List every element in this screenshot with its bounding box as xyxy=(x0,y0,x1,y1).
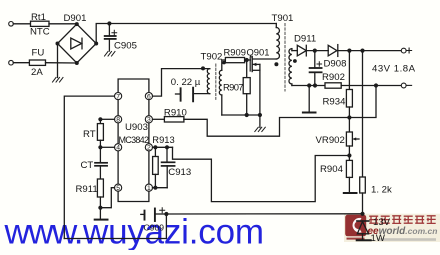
pin 3 xyxy=(145,116,152,124)
wire xyxy=(49,23,77,25)
node zener top xyxy=(360,212,364,216)
resistor R909 xyxy=(224,47,251,63)
pin 5 xyxy=(115,184,122,192)
wire pin 4 xyxy=(100,146,114,148)
wire left feedback column xyxy=(64,96,114,238)
terminal + output xyxy=(401,48,406,53)
svg-text:C913: C913 xyxy=(168,167,191,178)
node R913 top xyxy=(153,145,157,149)
node 1.2k branch xyxy=(360,49,364,53)
svg-text:R907: R907 xyxy=(223,82,244,93)
wire xyxy=(13,23,30,25)
node VR902/R904 junction xyxy=(347,153,351,157)
resistor R913 xyxy=(152,134,174,188)
svg-text:13V: 13V xyxy=(373,217,391,228)
svg-text:MC3842: MC3842 xyxy=(119,135,150,145)
wire pins 5-1 lower U xyxy=(118,191,149,201)
wire xyxy=(341,85,401,87)
terminal - output xyxy=(401,83,406,88)
svg-text:0. 22 µ: 0. 22 µ xyxy=(171,77,201,88)
node R934 bottom junction xyxy=(347,115,351,119)
svg-text:R934: R934 xyxy=(323,97,347,108)
wire bridge plus riser xyxy=(96,24,276,44)
pin 1 xyxy=(145,184,152,192)
svg-text:D908: D908 xyxy=(324,59,347,70)
node C909 plus junction xyxy=(164,212,168,216)
ground (bar style) R904 xyxy=(344,192,357,194)
resistor Rt1 xyxy=(31,21,50,26)
wire bridge minus to ground xyxy=(57,44,59,78)
svg-text:Rt1: Rt1 xyxy=(31,12,46,23)
node T902 winding2 phase dot xyxy=(222,61,226,65)
capacitor C905 xyxy=(105,24,137,52)
node R934 branch xyxy=(347,49,351,53)
node DC bus / C905 junction xyxy=(107,21,111,25)
wire pin 5 to ground junction xyxy=(100,188,114,208)
node rectifier output junction xyxy=(313,49,317,53)
terminal AC input 2 xyxy=(9,60,14,65)
wire C909 riser to bottom rail xyxy=(165,214,167,239)
svg-text:C905: C905 xyxy=(114,41,137,52)
transistor Q901 (MOSFET) xyxy=(247,47,277,116)
wire xyxy=(306,50,328,52)
T901 primary winding xyxy=(276,24,279,59)
pin 6 xyxy=(145,93,152,101)
svg-text:wuyazi.com: wuyazi.com xyxy=(82,213,264,251)
wire xyxy=(13,62,29,64)
fuse FU 2A xyxy=(29,60,45,65)
node ground stem junction xyxy=(307,83,311,87)
ground (slash style) xyxy=(53,78,64,83)
capacitor C909 xyxy=(141,208,167,233)
T902 core xyxy=(215,64,217,99)
svg-text:RT: RT xyxy=(83,129,96,140)
T901 core xyxy=(284,24,286,92)
node source bottom xyxy=(258,113,262,117)
svg-text:R909: R909 xyxy=(224,47,246,58)
svg-text:1W: 1W xyxy=(371,233,386,244)
svg-text:NTC: NTC xyxy=(30,27,50,38)
ground (slash style) xyxy=(105,52,116,57)
wire feedback to minus rail xyxy=(349,86,376,118)
node R909/gate/R907 junction xyxy=(245,58,249,62)
wire feedback A xyxy=(184,118,350,137)
svg-text:6: 6 xyxy=(147,94,151,101)
resistor R904 xyxy=(320,156,352,193)
wire ground rail B xyxy=(166,213,362,215)
svg-text:R911: R911 xyxy=(76,184,98,195)
node C902 bottom junction xyxy=(313,83,317,87)
diode D911 xyxy=(294,34,316,56)
svg-text:CT: CT xyxy=(81,160,94,171)
svg-text:2A: 2A xyxy=(31,67,43,78)
node R907 bottom xyxy=(245,113,249,117)
T902 winding 1 xyxy=(207,69,209,94)
T902 winding 2 xyxy=(219,60,225,115)
pin 7 xyxy=(115,93,122,101)
diode D908 xyxy=(324,45,347,70)
capacitor 0.22u xyxy=(171,77,210,102)
svg-text:2: 2 xyxy=(147,145,151,152)
svg-text:FU: FU xyxy=(32,48,45,59)
wire feedback B xyxy=(173,147,350,201)
wire pin 8 xyxy=(100,118,114,120)
svg-text:R904: R904 xyxy=(320,164,344,175)
node secondary phase dot xyxy=(293,59,297,63)
node R911 ground junction xyxy=(98,206,102,210)
node pin1/R913 bottom xyxy=(153,186,157,190)
capacitor CT xyxy=(81,147,108,179)
wire xyxy=(46,62,77,64)
IC U903 MC3842 body xyxy=(118,96,149,188)
svg-text:7: 7 xyxy=(116,94,120,101)
capacitor C902 (filter, + marked) xyxy=(310,51,322,86)
ground (bar style) secondary xyxy=(303,86,316,113)
pin 4 xyxy=(115,144,122,152)
wire pin 6 riser to T902 xyxy=(153,69,210,97)
wire bracket pins 7-6 xyxy=(118,79,149,93)
svg-text:1. 2k: 1. 2k xyxy=(371,185,392,196)
svg-text:T902: T902 xyxy=(201,52,223,63)
wire pin 2 junction xyxy=(153,146,173,148)
wire minus rail xyxy=(292,85,325,87)
svg-text:T901: T901 xyxy=(272,13,294,24)
svg-text:VR902: VR902 xyxy=(316,135,345,146)
capacitor C913 xyxy=(162,147,192,187)
svg-text:Q901: Q901 xyxy=(247,47,270,58)
resistor R934 xyxy=(323,51,353,118)
svg-text:3: 3 xyxy=(147,117,151,124)
zener diode 13V 1W xyxy=(357,217,391,244)
svg-text:C909: C909 xyxy=(144,223,165,233)
svg-text:R913: R913 xyxy=(152,134,174,145)
ground (slash style) Q901 xyxy=(255,115,265,132)
resistor R907 xyxy=(223,60,250,115)
svg-text:R902: R902 xyxy=(322,72,345,83)
node RT top xyxy=(98,117,102,121)
T901 secondary winding xyxy=(289,49,292,86)
watermark eeworld badge xyxy=(344,214,440,242)
wire pin 1 junction xyxy=(153,187,168,189)
svg-text:U903: U903 xyxy=(125,122,148,133)
svg-text:www.: www. xyxy=(4,213,84,251)
svg-text:D911: D911 xyxy=(294,34,316,45)
svg-text:8: 8 xyxy=(116,117,120,124)
svg-text:43V 1.8A: 43V 1.8A xyxy=(372,64,416,75)
resistor R911 xyxy=(76,179,104,219)
ground (bar style) R911 xyxy=(95,219,108,221)
resistor R910 xyxy=(153,108,187,123)
bridge rectifier D901 xyxy=(56,13,99,65)
resistor RT xyxy=(83,119,103,147)
node T902 primary top dot xyxy=(201,66,205,70)
wire xyxy=(292,50,297,52)
svg-text:D901: D901 xyxy=(64,13,87,24)
pin 2 xyxy=(145,144,152,152)
resistor R902 xyxy=(322,72,345,88)
node C913 top xyxy=(165,145,169,149)
resistor 1.2k xyxy=(360,51,392,214)
potentiometer VR902 xyxy=(316,118,360,156)
wire Q901 source rail xyxy=(222,114,260,116)
ground (bar style) zener xyxy=(357,239,371,241)
pin 8 xyxy=(115,116,122,124)
node feedback riser junction xyxy=(374,83,378,87)
svg-text:4: 4 xyxy=(116,145,120,152)
node T901 primary phase dot xyxy=(274,62,278,66)
wire plus rail xyxy=(338,50,402,52)
wire bottom ground rail xyxy=(64,238,166,240)
node RT/CT junction xyxy=(98,145,102,149)
terminal AC input 1 xyxy=(9,22,14,27)
